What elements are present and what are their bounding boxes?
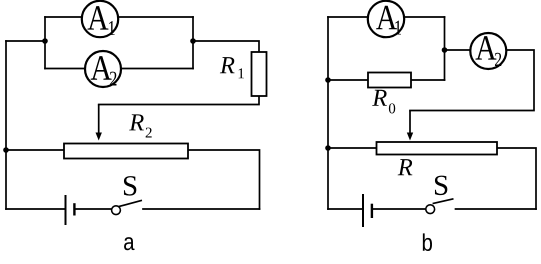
resistor R1 (circuit a) [252,52,267,96]
wire battery to switch (circuit a) [75,208,113,210]
slider arrow (circuit b) [407,111,413,141]
wire R left lead (circuit b) [328,147,377,149]
label b [423,233,432,251]
ammeter A2 (circuit b) [470,33,506,69]
wire left branch vertical (circuit a) [44,17,46,69]
label R (circuit b) [398,159,413,175]
rheostat R (circuit b) [377,142,498,155]
wire junction to R1 top (circuit a) [193,41,259,52]
wire top through A1 (circuit b) [328,16,445,18]
label a [124,237,134,250]
junction dot right (circuit a) [190,38,196,44]
wire bottom branch through A2 (circuit a) [45,68,193,70]
wire right vertical A1-R0 (circuit b) [444,17,446,80]
label S (circuit a) [124,176,136,195]
rheostat R2 (circuit a) [64,144,188,159]
junction dot left (circuit a) [42,38,48,44]
label R0 [372,90,395,114]
label R2 [129,114,152,137]
wire junction to A2 (circuit b) [445,49,471,51]
wire R0 left lead (circuit b) [328,79,368,81]
wire right branch vertical (circuit a) [192,17,194,69]
wire left main (circuit b) [327,17,329,209]
label R1 [220,57,244,78]
resistor R0 (circuit b) [368,73,411,88]
junction dot R0 left (circuit b) [325,77,331,83]
wire A2 right and down to slider feed (circuit b) [410,50,534,111]
switch S (circuit a) [112,200,142,214]
slider arrow (circuit a) [96,105,102,141]
junction dot R left (circuit b) [325,145,331,151]
wire top-left horizontal to junction (circuit a) [6,40,45,42]
wire R0 right lead (circuit b) [411,79,445,81]
ammeter A1 (circuit b) [368,1,404,37]
label S (circuit b) [435,176,447,195]
wire battery to switch (circuit b) [372,208,426,210]
wire switch to bottom right (circuit a) [143,208,260,210]
junction dot R2 left (circuit a) [3,147,9,153]
switch S (circuit b) [426,199,454,214]
wire R1 bottom to slider feed (circuit a) [99,96,259,105]
wire R2 right lead down to bottom (circuit a) [188,150,260,209]
battery (circuit b) [363,194,372,227]
wire left main (circuit a) [5,41,7,209]
wire R right lead down to bottom (circuit b) [497,148,536,209]
junction dot A2 branch (circuit b) [442,47,448,53]
wire bottom left to battery (circuit a) [6,208,65,210]
wire R2 left lead (circuit a) [6,149,64,151]
battery (circuit a) [66,195,75,225]
wire top branch through A1 (circuit a) [45,16,193,18]
wire switch to bottom right (circuit b) [456,208,537,210]
ammeter A2 (circuit a) [85,51,121,87]
ammeter A1 (circuit a) [82,1,118,37]
wire bottom left to battery (circuit b) [328,208,363,210]
